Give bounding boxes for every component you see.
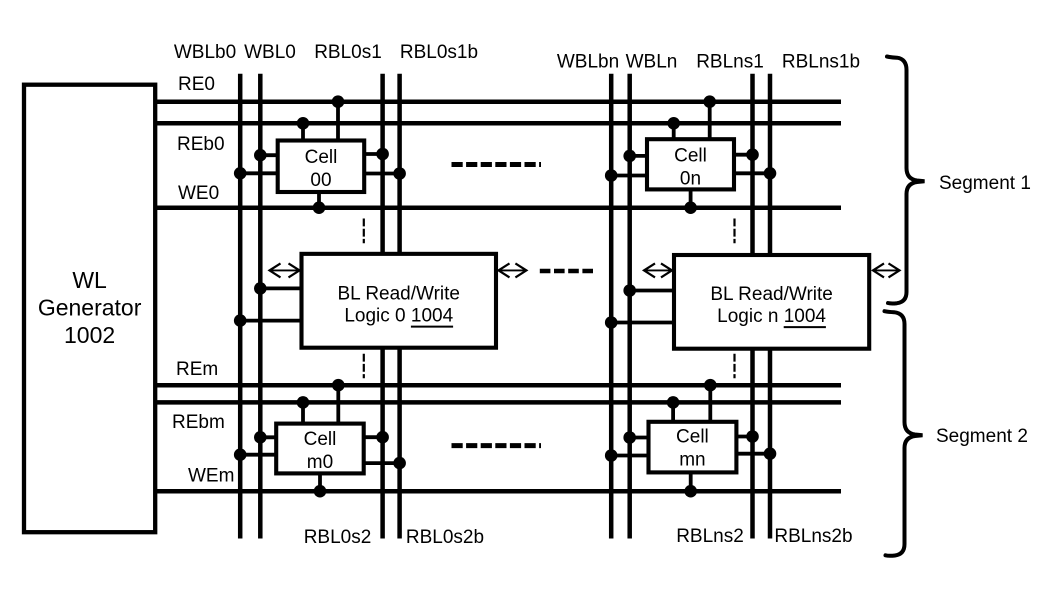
- svg-text:Cell: Cell: [676, 427, 709, 448]
- svg-text:RBLns2b: RBLns2b: [774, 526, 852, 547]
- svg-text:RBLns2: RBLns2: [676, 526, 744, 547]
- svg-text:WBLbn: WBLbn: [557, 52, 619, 73]
- svg-text:WBLn: WBLn: [626, 52, 678, 73]
- svg-text:Segment 1: Segment 1: [939, 173, 1031, 194]
- svg-text:RE0: RE0: [178, 74, 215, 95]
- svg-text:REm: REm: [176, 359, 218, 380]
- svg-text:WBL0: WBL0: [244, 42, 296, 63]
- svg-text:mn: mn: [679, 450, 705, 471]
- svg-text:BL Read/Write: BL Read/Write: [338, 284, 461, 305]
- svg-text:RBLns1b: RBLns1b: [782, 52, 860, 73]
- svg-text:RBL0s1b: RBL0s1b: [400, 42, 478, 63]
- svg-text:Cell: Cell: [305, 147, 338, 168]
- svg-text:Logic n 1004: Logic n 1004: [717, 306, 826, 327]
- svg-text:WBLb0: WBLb0: [174, 42, 236, 63]
- svg-text:RBL0s1: RBL0s1: [314, 42, 382, 63]
- svg-text:Generator: Generator: [38, 295, 142, 321]
- svg-text:RBL0s2: RBL0s2: [304, 527, 372, 548]
- svg-text:Cell: Cell: [304, 429, 337, 450]
- svg-text:Segment 2: Segment 2: [936, 426, 1028, 447]
- svg-text:WL: WL: [72, 267, 107, 293]
- svg-text:Logic 0 1004: Logic 0 1004: [344, 305, 453, 326]
- svg-text:RBL0s2b: RBL0s2b: [406, 527, 484, 548]
- svg-text:1002: 1002: [64, 322, 115, 348]
- svg-text:m0: m0: [307, 452, 333, 473]
- svg-text:WEm: WEm: [188, 466, 234, 487]
- svg-text:00: 00: [310, 170, 331, 191]
- svg-text:WE0: WE0: [178, 183, 219, 204]
- svg-text:RBLns1: RBLns1: [696, 52, 764, 73]
- svg-text:BL Read/Write: BL Read/Write: [710, 284, 833, 305]
- svg-text:0n: 0n: [680, 169, 701, 190]
- svg-text:REbm: REbm: [172, 412, 225, 433]
- svg-text:Cell: Cell: [674, 146, 707, 167]
- svg-text:REb0: REb0: [177, 134, 225, 155]
